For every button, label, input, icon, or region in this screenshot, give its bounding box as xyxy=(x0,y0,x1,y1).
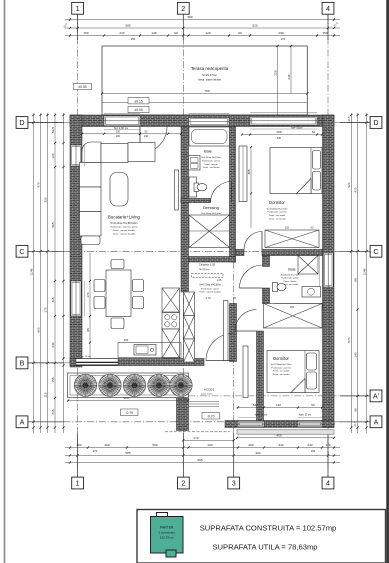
elevation label +0.00 xyxy=(128,106,149,112)
dim top row 3 xyxy=(65,35,340,37)
svg-text:3: 3 xyxy=(232,479,236,488)
svg-text:1148: 1148 xyxy=(29,268,33,275)
svg-text:210: 210 xyxy=(144,135,149,138)
svg-text:560: 560 xyxy=(152,443,157,447)
svg-text:Baie: Baie xyxy=(288,267,295,271)
elevation -0.70 entrance xyxy=(202,413,220,420)
svg-text:565: 565 xyxy=(51,222,55,227)
dim left col 5 (wall face) xyxy=(63,113,65,433)
svg-text:170: 170 xyxy=(43,307,47,312)
svg-text:52.5: 52.5 xyxy=(51,127,55,133)
svg-text:Pereti : vopsea lavabila: Pereti : vopsea lavabila xyxy=(113,229,136,232)
svg-text:150: 150 xyxy=(322,31,327,35)
dim right col 3 xyxy=(366,113,368,433)
elevation label +0.50 xyxy=(74,84,92,90)
living interior dim left vertical xyxy=(89,253,91,358)
wall baie1-dressing xyxy=(181,199,211,203)
svg-text:390: 390 xyxy=(104,443,109,447)
grid bubble 2 xyxy=(178,477,190,489)
steps strip east fill xyxy=(237,430,334,434)
door baie2 xyxy=(240,287,263,289)
svg-text:102,57mp: 102,57mp xyxy=(160,536,174,540)
svg-text:PARTER: PARTER xyxy=(160,526,174,530)
window dormitor2 bottom east xyxy=(298,421,322,427)
svg-text:360: 360 xyxy=(124,338,129,342)
wall dormitor2 left xyxy=(257,331,264,421)
elevation -0.70 west xyxy=(121,409,139,416)
svg-text:230: 230 xyxy=(311,449,316,453)
svg-text:340: 340 xyxy=(278,443,283,447)
dormitor1 interior dims xyxy=(250,147,252,228)
baie1 vanity xyxy=(189,156,201,171)
svg-text:Pereti : var lavabil: Pereti : var lavabil xyxy=(273,370,290,373)
svg-text:150: 150 xyxy=(83,31,88,35)
svg-text:470: 470 xyxy=(36,182,40,187)
grid bubble 1 xyxy=(72,477,84,489)
svg-text:hpar. 15 cm: hpar. 15 cm xyxy=(255,414,268,417)
svg-text:585: 585 xyxy=(125,24,130,28)
svg-text:320: 320 xyxy=(43,197,47,202)
baie1 wc xyxy=(194,183,199,192)
wall exterior left xyxy=(70,115,82,367)
svg-text:960: 960 xyxy=(187,15,192,19)
svg-text:630: 630 xyxy=(277,137,282,140)
grid bubble 1 xyxy=(72,2,84,14)
svg-text:225: 225 xyxy=(285,226,290,229)
solid grid stubs left xyxy=(28,122,64,124)
wall bottom right dormitor2 xyxy=(225,421,334,428)
svg-text:S=4,72mp H=2,80m: S=4,72mp H=2,80m xyxy=(199,284,220,287)
svg-text:230: 230 xyxy=(51,342,55,347)
solid grid stubs bottom xyxy=(77,433,79,477)
kitchen wall units right xyxy=(184,292,195,316)
grid axis 1 xyxy=(77,14,79,477)
svg-text:315: 315 xyxy=(51,297,55,302)
sofa top cushions xyxy=(101,144,128,163)
wall baie2 left upper xyxy=(263,256,270,267)
grid bubble A' xyxy=(370,390,382,402)
door entrance xyxy=(206,360,233,362)
grid bubble B xyxy=(16,357,28,369)
dim left col 2 xyxy=(40,113,42,433)
svg-text:270: 270 xyxy=(93,449,98,453)
svg-text:Dormitor: Dormitor xyxy=(269,200,285,205)
dormitor1 dresser xyxy=(265,230,319,248)
svg-text:C: C xyxy=(19,247,24,256)
svg-text:A: A xyxy=(374,417,379,426)
solid grid stubs right xyxy=(340,122,370,124)
solid grid stubs top xyxy=(77,14,79,40)
svg-text:240: 240 xyxy=(307,443,312,447)
grid axis D xyxy=(28,122,370,124)
svg-text:1.05: 1.05 xyxy=(217,279,222,282)
garden sunburst plants xyxy=(74,374,96,396)
svg-text:Pereti : faianta: Pereti : faianta xyxy=(284,280,298,283)
svg-text:210: 210 xyxy=(119,31,124,35)
svg-text:hpar. 15 cm: hpar. 15 cm xyxy=(299,414,312,417)
svg-text:Terasa neacoperita: Terasa neacoperita xyxy=(191,66,229,71)
svg-text:S=12,58mp H=2,50m: S=12,58mp H=2,50m xyxy=(271,364,292,366)
baie2 washbasin xyxy=(302,287,321,298)
svg-text:100: 100 xyxy=(207,443,212,447)
living interior dim top xyxy=(82,133,181,135)
svg-text:70H120cm: 70H120cm xyxy=(199,269,210,271)
dim top row 2 xyxy=(65,27,340,29)
window kitchen bottom (parapet) xyxy=(76,359,118,366)
svg-text:170: 170 xyxy=(86,292,90,297)
wall exterior top xyxy=(70,115,334,127)
svg-text:Tavan : var lavabil: Tavan : var lavabil xyxy=(203,166,220,169)
svg-text:120: 120 xyxy=(51,153,55,158)
sofa arm rest xyxy=(81,236,100,245)
svg-text:hp. 15 cm: hp. 15 cm xyxy=(81,356,91,358)
svg-text:470: 470 xyxy=(353,187,357,192)
svg-text:115: 115 xyxy=(43,392,47,397)
svg-text:1: 1 xyxy=(76,4,80,13)
svg-text:200: 200 xyxy=(116,135,121,138)
baie1 bathtub xyxy=(189,127,230,146)
dressing wardrobe xyxy=(189,215,230,248)
svg-text:240: 240 xyxy=(287,74,291,79)
door baie1 xyxy=(231,182,233,203)
dining chairs xyxy=(111,260,124,269)
baie1 washing machine xyxy=(189,177,197,197)
grid bubble D xyxy=(16,117,28,129)
exterior sill lines above windows xyxy=(104,112,317,115)
dormitor1 wardrobe left xyxy=(239,146,247,202)
dim left col 1 xyxy=(33,113,35,433)
svg-text:ACCES: ACCES xyxy=(204,388,214,392)
dim bottom row 1 xyxy=(65,447,340,449)
svg-text:±0.50: ±0.50 xyxy=(78,85,87,89)
svg-text:B: B xyxy=(20,359,25,368)
svg-text:C: C xyxy=(373,247,378,256)
svg-text:SUPRAFATA CONSTRUITA = 102.57m: SUPRAFATA CONSTRUITA = 102.57mp xyxy=(200,524,337,533)
svg-text:-0.70: -0.70 xyxy=(125,411,133,415)
baie2 wc xyxy=(273,283,278,292)
svg-text:60: 60 xyxy=(174,31,178,35)
svg-text:88: 88 xyxy=(353,278,357,282)
svg-text:215: 215 xyxy=(51,409,55,414)
svg-text:S=41,42mp H=2,80/3,20m: S=41,42mp H=2,80/3,20m xyxy=(111,223,138,225)
svg-text:D: D xyxy=(19,118,24,127)
svg-text:305: 305 xyxy=(247,169,251,174)
svg-text:A: A xyxy=(20,417,25,426)
svg-text:225: 225 xyxy=(290,306,295,309)
svg-text:110: 110 xyxy=(276,403,281,407)
svg-text:260: 260 xyxy=(248,443,253,447)
svg-text:1148: 1148 xyxy=(362,268,366,275)
wall central vertical xyxy=(181,127,189,293)
grid bubble 3 xyxy=(228,477,240,489)
window baie1 top xyxy=(189,118,230,126)
terrace dim 750 xyxy=(102,93,307,95)
page border left xyxy=(4,0,6,563)
garden terrace outline xyxy=(68,373,189,398)
wall baie1-dormitor1 xyxy=(230,127,236,263)
svg-text:270: 270 xyxy=(281,37,286,41)
window dormitor1 top xyxy=(250,117,317,126)
door terrace-living xyxy=(139,127,141,154)
dim right col 1 xyxy=(350,113,352,433)
svg-text:Dressing: Dressing xyxy=(203,205,219,210)
steps strip east xyxy=(237,429,334,431)
wall baie2 bottom xyxy=(275,304,323,310)
dormitor1 bed xyxy=(270,148,322,194)
grid bubble D xyxy=(370,117,382,129)
svg-text:180: 180 xyxy=(76,443,81,447)
grid axis B xyxy=(28,362,190,364)
entrance steps xyxy=(189,401,219,403)
dormitor2 wardrobe xyxy=(264,304,323,329)
dormitor1 bed fold xyxy=(297,179,312,194)
grid bubble A xyxy=(370,416,382,428)
dormitor2 bed xyxy=(267,351,319,393)
svg-text:148: 148 xyxy=(151,31,156,35)
svg-text:2: 2 xyxy=(181,4,185,13)
svg-text:SUPRAFATA UTILA = 78,63mp: SUPRAFATA UTILA = 78,63mp xyxy=(212,543,317,552)
dormitor2 bed fold xyxy=(291,379,305,393)
door dormitor2 xyxy=(235,330,257,332)
svg-text:Pereti : var lavabil: Pereti : var lavabil xyxy=(269,214,286,217)
svg-text:2: 2 xyxy=(181,479,185,488)
grid axis C xyxy=(28,250,370,252)
sofa left cushions xyxy=(80,163,102,188)
terrace dim verticals xyxy=(277,46,279,115)
dormitor1 window dim xyxy=(242,134,322,136)
elevation label +0.15 xyxy=(128,98,149,104)
svg-text:Pardoseala : gresie: Pardoseala : gresie xyxy=(281,278,299,280)
kitchen tall units left xyxy=(162,288,180,312)
dim bottom row 3 xyxy=(65,462,340,464)
svg-text:Tavan : var lavabil: Tavan : var lavabil xyxy=(273,373,290,376)
svg-text:120: 120 xyxy=(205,31,210,35)
title block house icon xyxy=(157,513,168,518)
svg-text:155: 155 xyxy=(51,377,55,382)
svg-text:250: 250 xyxy=(131,37,136,41)
wall hall north stub xyxy=(236,250,245,256)
svg-text:S=4,42mp H=2,50m: S=4,42mp H=2,50m xyxy=(201,157,221,159)
wall entrance pillar xyxy=(177,398,189,431)
svg-text:50: 50 xyxy=(311,403,315,407)
grid bubble 2 xyxy=(177,2,189,14)
svg-text:200: 200 xyxy=(278,31,283,35)
grid bubble C xyxy=(16,245,28,257)
baie2 shower xyxy=(298,256,318,275)
svg-text:140: 140 xyxy=(353,352,357,357)
grid axis 4 xyxy=(327,14,329,477)
dim left col 4 xyxy=(54,113,56,433)
svg-text:4: 4 xyxy=(326,479,330,488)
window dining left xyxy=(71,281,81,316)
window dormitor2 bottom west xyxy=(238,421,264,427)
grid bubble 4 xyxy=(322,477,334,489)
svg-text:Pardoseala : parchet: Pardoseala : parchet xyxy=(271,366,291,369)
dormitor2 window dim xyxy=(237,407,323,409)
hall dashed box xyxy=(192,274,224,278)
svg-text:585: 585 xyxy=(125,451,130,455)
svg-text:Pardoseala : parchet, gresie: Pardoseala : parchet, gresie xyxy=(110,226,138,229)
title block box xyxy=(137,510,386,563)
svg-text:1: 1 xyxy=(76,479,80,488)
grid axis 2 xyxy=(182,14,184,477)
svg-text:540: 540 xyxy=(253,403,258,407)
window living left xyxy=(71,145,82,166)
page border right xyxy=(386,0,389,563)
svg-text:570: 570 xyxy=(347,337,351,342)
svg-text:600: 600 xyxy=(36,327,40,332)
grid bubble 4 xyxy=(322,2,334,14)
svg-text:S=14,06mp H=2,50m: S=14,06mp H=2,50m xyxy=(267,208,288,210)
svg-text:95: 95 xyxy=(86,328,90,332)
entrance canopy dashed xyxy=(165,431,230,433)
dim top row 1 xyxy=(65,19,340,21)
svg-text:A': A' xyxy=(373,392,380,401)
window baie2 right xyxy=(323,253,333,287)
wall below dressing xyxy=(189,257,236,263)
hall cabinet xyxy=(243,346,248,398)
kitchen cooktop xyxy=(162,313,180,330)
kitchen counter bottom xyxy=(118,343,181,358)
door dormitor1 xyxy=(261,232,263,250)
steps width dim 400 xyxy=(237,437,334,439)
svg-text:S=4,35mp H=2,50m: S=4,35mp H=2,50m xyxy=(201,213,221,215)
svg-text:Chiparos 1.05: Chiparos 1.05 xyxy=(199,263,216,267)
wall hall north right xyxy=(262,250,323,256)
grid axis 3 xyxy=(233,250,235,477)
svg-text:Tavan : var lavabil: Tavan : var lavabil xyxy=(269,217,286,220)
svg-text:750: 750 xyxy=(204,89,209,93)
grid bubble A xyxy=(16,416,28,428)
hall niche xyxy=(224,301,229,361)
svg-text:27.5: 27.5 xyxy=(347,116,351,122)
svg-text:Pardoseala : gresie: Pardoseala : gresie xyxy=(202,160,221,163)
svg-text:965: 965 xyxy=(197,458,202,462)
terrace step line xyxy=(102,102,307,104)
svg-text:500: 500 xyxy=(123,396,128,400)
kitchen sink xyxy=(134,345,156,356)
svg-text:4: 4 xyxy=(326,4,330,13)
wall bottom left living xyxy=(70,359,204,366)
grid axis A' xyxy=(188,395,370,397)
dining table xyxy=(106,270,131,317)
sofa corner piece xyxy=(82,142,101,163)
svg-text:finisaj : piatra naturala: finisaj : piatra naturala xyxy=(198,79,221,82)
svg-text:Pereti : vopsea lavabila: Pereti : vopsea lavabila xyxy=(199,290,221,293)
dim left col 3 xyxy=(47,113,49,433)
svg-text:Pardoseala : gresie: Pardoseala : gresie xyxy=(201,287,220,290)
svg-text:±0.15: ±0.15 xyxy=(134,99,143,103)
svg-text:Dormitor: Dormitor xyxy=(273,356,289,361)
wall vestibule xyxy=(230,304,237,362)
svg-text:pard. 15cm: pard. 15cm xyxy=(202,393,213,396)
terrace outline xyxy=(102,46,307,115)
svg-text:D: D xyxy=(373,118,378,127)
svg-text:60: 60 xyxy=(312,130,316,134)
window sill lines xyxy=(85,129,322,418)
dim right col 2 xyxy=(357,113,359,433)
svg-text:60: 60 xyxy=(238,31,242,35)
svg-text:400: 400 xyxy=(255,451,260,455)
svg-text:-0.70: -0.70 xyxy=(207,415,215,419)
svg-text:Pereti : faianta: Pereti : faianta xyxy=(204,163,218,166)
svg-text:95: 95 xyxy=(353,408,357,412)
svg-text:Baie: Baie xyxy=(204,149,213,154)
svg-text:Tavan : vopsea lavabila: Tavan : vopsea lavabila xyxy=(113,233,137,235)
coffee table xyxy=(110,173,128,207)
svg-text:225: 225 xyxy=(273,70,277,75)
svg-text:170: 170 xyxy=(193,436,198,440)
svg-text:250: 250 xyxy=(116,131,121,134)
svg-text:200: 200 xyxy=(276,130,281,134)
grid bubble C xyxy=(370,245,382,257)
kitchen tall units left lower xyxy=(162,329,180,358)
svg-text:Pardoseala : parchet: Pardoseala : parchet xyxy=(267,211,287,214)
grid axis A xyxy=(28,421,370,423)
svg-text:S=15,37mp: S=15,37mp xyxy=(202,73,217,77)
window living top xyxy=(104,116,140,126)
svg-text:S=4,42mp H=2,50m: S=4,42mp H=2,50m xyxy=(281,274,300,276)
garden dim xyxy=(68,400,188,402)
svg-text:3 dormitoare: 3 dormitoare xyxy=(158,531,175,535)
living tv unit xyxy=(175,170,179,210)
wall exterior right xyxy=(323,115,335,428)
svg-text:1.70: 1.70 xyxy=(205,296,211,300)
svg-text:Bucataria+Living: Bucataria+Living xyxy=(108,215,140,220)
svg-text:±0.00: ±0.00 xyxy=(134,108,143,112)
svg-text:520: 520 xyxy=(252,24,257,28)
dim bottom row 2 xyxy=(65,455,340,457)
svg-text:520: 520 xyxy=(347,182,351,187)
wall baie2 left lower xyxy=(263,288,270,304)
entrance dim 170 xyxy=(183,439,233,441)
